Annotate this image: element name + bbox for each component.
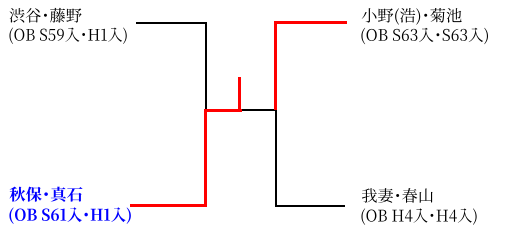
wire: top-left pair horizontal (black)	[136, 22, 207, 24]
team label: (OB H4入・H4入) (bottom-right, line 2)	[361, 208, 476, 225]
team label: (OB S63入・S63入) (top-right, line 2)	[361, 28, 488, 45]
wire: top-left pair vertical down to semifinal join (black)	[205, 22, 207, 111]
team label: (OB S61入・H1入) (bottom-left winner, blue bold, line 2)	[9, 207, 130, 224]
wire: bottom-right pair horizontal (black)	[275, 205, 345, 207]
wire: final winner stub vertical (red)	[238, 77, 241, 112]
wire: bottom-left winner horizontal (red)	[130, 204, 207, 207]
team label: 渋谷・藤野 (top-left, line 1)	[9, 8, 81, 23]
team label: 小野(浩)・菊池 (top-right, line 1)	[362, 8, 462, 25]
team label: (OB S59入・H1入) (top-left, line 2)	[9, 27, 126, 44]
wire: top-right winner horizontal (red)	[274, 21, 347, 24]
wire: center-right horizontal black (right semifinal to final)	[242, 109, 276, 111]
wire: left semifinal to final horizontal (red)	[204, 109, 242, 112]
wire: bottom-left winner vertical up to semifinal join (red)	[204, 109, 207, 207]
team label: 秋保・真石 (bottom-left winner, blue bold, line 1)	[10, 187, 83, 202]
wire: bottom-right pair vertical (black)	[275, 110, 277, 206]
team label: 我妻・春山 (bottom-right, line 1)	[362, 188, 433, 203]
wire: top-right winner vertical down to semifinal join (red)	[274, 21, 277, 110]
